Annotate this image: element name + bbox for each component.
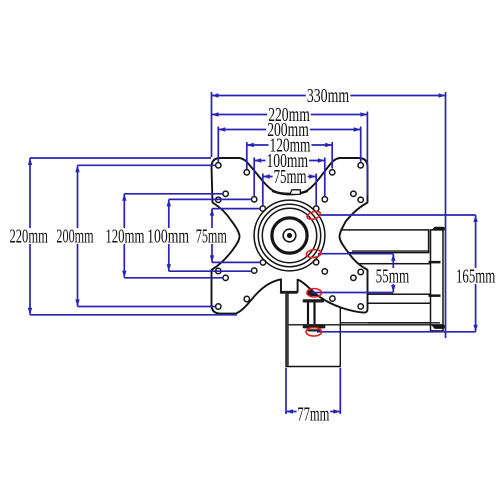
arrows 200 left (75, 165, 79, 172)
pivot link (307, 303, 309, 325)
hole 100x100 BL (252, 268, 257, 273)
hole 200x200 BR (358, 304, 363, 309)
red ellipse screw 3 (307, 289, 322, 297)
ext line 75 right (315, 174, 317, 206)
hole 200x200 BL (216, 304, 221, 309)
dim 75mm top line (263, 176, 316, 178)
arrows 120 left (122, 194, 126, 201)
conn 220 bottom (30, 314, 237, 316)
arm end cap top (431, 227, 445, 231)
label 220mm top (267, 106, 311, 122)
conn 165 top (319, 214, 476, 216)
label 75mm top (273, 168, 308, 184)
svg-text:77mm: 77mm (297, 403, 329, 425)
svg-text:100mm: 100mm (147, 226, 189, 248)
ext line 100 right (324, 158, 326, 197)
arrows 220 top (212, 112, 219, 116)
ext line 200 right (360, 127, 362, 163)
conn 120 bottom (124, 277, 223, 279)
dim 100mm left line (168, 199, 170, 271)
label 120mm left (104, 228, 145, 244)
dim 100mm top line (254, 160, 325, 162)
ext line 120 left (246, 142, 248, 169)
red ellipse screw 2 (306, 249, 322, 259)
arrows 100 top (254, 158, 261, 162)
hole 75x75 TR (314, 206, 319, 211)
hole mid BR (351, 275, 356, 280)
hole 100x100 TR (322, 197, 327, 202)
arrows 165 (473, 215, 477, 222)
ext line 100 left (253, 158, 255, 197)
svg-text:220mm: 220mm (9, 226, 48, 248)
hole 200x200 TL (216, 163, 221, 168)
hole 120col BR (330, 296, 335, 301)
arrows 100 left (167, 199, 171, 206)
svg-text:330mm: 330mm (307, 85, 350, 107)
arrows 75 top (263, 174, 270, 178)
dim 165mm line (475, 215, 477, 332)
ext line 120 right (331, 142, 333, 169)
dim 220mm left line (29, 158, 31, 315)
hole 200col100row BL (216, 268, 221, 273)
arm lower bar (368, 303, 440, 323)
pivot screw upper (308, 289, 320, 296)
arrows 75 left (210, 209, 214, 216)
ext line 77 left (285, 368, 287, 414)
red ellipse screw 4 (306, 328, 322, 337)
arm end cap bottom (431, 325, 445, 329)
pivot washer lower (303, 325, 326, 328)
hole 200col100row BR (358, 269, 363, 274)
hole 75x75 BR (313, 260, 318, 265)
arrows 200 top (218, 127, 225, 131)
svg-text:75mm: 75mm (196, 226, 227, 248)
conn 120 top (124, 193, 223, 195)
svg-text:55mm: 55mm (376, 265, 410, 287)
neck inner lines (under plate outline) (292, 279, 294, 292)
ext line 330 right (445, 92, 447, 338)
label 120mm top (269, 137, 312, 153)
swing bracket bottom line (317, 322, 441, 324)
arm middle bar (352, 264, 440, 295)
conn 165 bottom (317, 331, 476, 333)
label 330mm (306, 87, 351, 103)
hole 200col100row TR (358, 197, 363, 202)
ext line 75 left (262, 174, 264, 206)
dim 120mm left line (123, 194, 125, 278)
dim 75mm left line (211, 209, 213, 263)
center dot (287, 233, 292, 238)
dim 330mm line (212, 95, 446, 97)
neck flange (280, 291, 298, 294)
dim 77mm line (286, 411, 340, 413)
arm upper bar inner line (352, 250, 428, 252)
dim 200mm left line (77, 165, 79, 306)
arrows 120 top (247, 143, 254, 147)
plate top tab (290, 190, 300, 195)
wall bracket rod (286, 294, 288, 366)
wall bracket (286, 294, 340, 367)
red ellipse screw 1 (306, 210, 321, 221)
ext line 330/220 left (211, 92, 213, 157)
conn 75 bottom (212, 261, 260, 263)
label 220mm left (9, 228, 50, 244)
arrowheads (28, 93, 478, 413)
conn 55 top (318, 253, 393, 255)
label 200mm left (55, 228, 94, 244)
label 55mm (375, 268, 411, 284)
svg-text:75mm: 75mm (274, 166, 307, 188)
arrows 55 (391, 254, 395, 261)
conn 200 bottom (78, 306, 216, 308)
hole 100x100 TL (252, 197, 257, 202)
hole 120col TL (244, 170, 249, 175)
hole 200x200 TR (358, 163, 363, 168)
svg-text:165mm: 165mm (456, 265, 495, 287)
conn 55 bottom (311, 292, 393, 294)
arm joint clip upper (429, 261, 441, 264)
label 100mm top (266, 152, 310, 168)
dim 55mm line (392, 254, 394, 293)
hole 200col100row TL (216, 197, 221, 202)
label 100mm left (146, 228, 190, 244)
svg-text:200mm: 200mm (56, 226, 93, 248)
conn 200 top (78, 164, 216, 166)
ext line 77 right (339, 368, 341, 414)
label 165mm (455, 268, 496, 284)
dim 120mm top line (247, 144, 332, 146)
plate holes (216, 163, 364, 310)
arm end column (431, 230, 444, 331)
conn 75 top (212, 208, 260, 210)
center swivel circles (254, 200, 325, 271)
arm upper bar (335, 230, 429, 253)
plate top dip bottom shading (272, 191, 308, 194)
svg-text:120mm: 120mm (105, 226, 144, 248)
hole mid BL (223, 275, 228, 280)
dim 200mm top line (218, 129, 360, 131)
hole 100x100 BR (322, 269, 327, 274)
label 77mm (297, 407, 331, 422)
ext line 220 right (366, 112, 368, 196)
hole 75x75 TL (260, 206, 265, 211)
pivot screw lower (308, 329, 321, 331)
hole mid TL (223, 191, 228, 196)
hole 75x75 BL (260, 260, 265, 265)
dim 220mm top line (212, 114, 368, 116)
hole 120col BL (244, 296, 249, 301)
label 75mm left (195, 228, 228, 244)
arrows 220 left (28, 158, 32, 165)
conn 220 top (30, 157, 211, 159)
label 200mm top (266, 121, 310, 137)
hole mid TR (351, 191, 356, 196)
arm joint clip lower (429, 294, 441, 297)
arrows 77 (286, 409, 293, 413)
ext line 200 left (217, 127, 219, 163)
long joint line (289, 324, 443, 326)
conn 100 bottom (169, 270, 252, 272)
VESA plate outline (212, 158, 368, 314)
conn 100 top (169, 198, 252, 200)
pivot washer upper (303, 299, 324, 302)
hole 120col TR (330, 170, 335, 175)
arrows 330 (212, 93, 219, 97)
